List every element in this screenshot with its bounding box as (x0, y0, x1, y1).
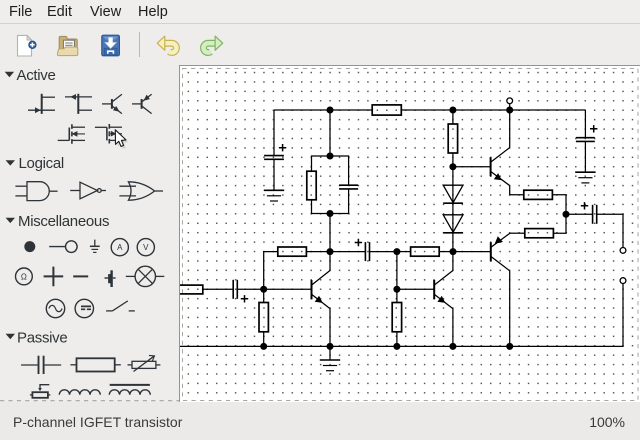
capacitor C2 (576, 138, 595, 142)
canvas backing (179, 65, 640, 402)
capacitor C4 (365, 242, 369, 261)
wire Q4 collector (509, 271, 511, 347)
wire J2 to R2 (452, 110, 454, 124)
palette icon: inductor with core (109, 385, 150, 395)
wire Q3 emitter to R8 (510, 186, 524, 195)
wire T2 to rail corner (180, 283, 623, 346)
node J15 (450, 344, 456, 350)
terminal T2 (620, 278, 626, 284)
statusbar (0, 402, 640, 440)
palette icon: minus (73, 275, 88, 277)
wire V+ drop to C1 (273, 110, 275, 156)
wire Q3 collector (509, 110, 511, 148)
resistor R4 (278, 247, 307, 256)
svg-text:Passive: Passive (17, 329, 67, 346)
wire Q1 emitter (329, 309, 331, 347)
ground G3 (320, 360, 340, 371)
wire Q2 emitter (452, 309, 454, 347)
menubar (0, 0, 640, 24)
transistor Q4 (491, 233, 510, 271)
palette icon: n-channel MOSFET (58, 124, 85, 144)
wire J1 to tank top (329, 110, 331, 156)
wire J7 to R4 (306, 251, 330, 253)
svg-text:V: V (143, 243, 149, 252)
SIDEBAR (0, 62, 179, 402)
wire Q2 collector (452, 252, 454, 271)
terminal T1 (620, 248, 626, 254)
C5 plus label (241, 295, 248, 302)
node J3 (450, 164, 456, 170)
grid dots field (184, 70, 637, 400)
diode D1 (443, 185, 463, 203)
section header Passive (6, 329, 68, 346)
toolbar (0, 24, 240, 62)
palette icon: voltmeter (137, 239, 154, 256)
wire J13 to R7 (396, 289, 398, 302)
node J17 (507, 344, 513, 350)
wire J9 to J13 (396, 252, 398, 290)
node J9 (394, 249, 400, 255)
palette icon: variable resistor (128, 355, 161, 371)
wire tank left top (312, 156, 331, 171)
wire J3 to Q3 base (453, 166, 490, 168)
sidebar bottom dashed edge (0, 400, 179, 402)
mouse cursor with shadow (115, 130, 128, 149)
wire R5 to rail (263, 332, 265, 347)
wire R8 to J16 (552, 195, 566, 215)
ground G1 (264, 190, 284, 201)
wire J16 down to R9 (553, 214, 566, 233)
wire J13 to Q2 base (397, 288, 434, 290)
resistor R6 (411, 247, 440, 256)
resistor R7 (392, 303, 401, 332)
page dashed border (183, 69, 639, 401)
node J16 (563, 211, 569, 217)
wire rail to G3 (329, 346, 331, 360)
transistor Q2 (434, 271, 453, 309)
wire R0 to C5 (203, 288, 233, 290)
wire tank right top (330, 156, 349, 185)
wire J7 to C4 (330, 251, 365, 253)
wire R6 to J12 (439, 251, 453, 253)
palette icon: battery cell (105, 270, 116, 287)
palette icon: ammeter (111, 239, 128, 256)
capacitor C5 (233, 280, 237, 299)
diode D2 (443, 215, 463, 233)
palette icon: node dot (24, 241, 35, 252)
palette icon: ohmmeter (16, 268, 33, 285)
svg-text:Active: Active (17, 67, 56, 84)
palette icon: terminal (49, 241, 77, 253)
section header Logical (6, 155, 64, 172)
wire R9 to Q4 emitter (510, 232, 525, 234)
palette icon: NOT gate (70, 182, 106, 199)
palette icon: DC source (75, 299, 93, 317)
palette icon: plus (44, 267, 64, 287)
wire tank left bottom (312, 200, 331, 214)
resistor R1 (372, 105, 401, 115)
resistor R3 (307, 171, 316, 200)
wire tank right bottom (330, 189, 349, 214)
palette icon: small ground (90, 240, 100, 253)
node J8 (261, 286, 267, 292)
palette icon: p-channel JFET (65, 94, 92, 114)
resistor R2 (448, 124, 457, 153)
svg-text:Miscellaneous: Miscellaneous (18, 213, 109, 230)
node J12 (450, 249, 456, 255)
toolbar icon: new document (18, 35, 37, 56)
node J13 (394, 286, 400, 292)
node J11 (261, 344, 267, 350)
palette icon: inductor (59, 390, 100, 395)
palette icon: PNP transistor (132, 94, 152, 113)
wire top rail left (274, 109, 372, 111)
palette icon: potentiometer (30, 385, 51, 398)
node J2 (450, 107, 456, 113)
C6 plus label (581, 202, 588, 209)
toolbar icon: open folder (57, 36, 77, 55)
wire R4 to J8 feedback (264, 252, 278, 290)
wire R2 to diodes (452, 153, 454, 252)
node J7 (327, 249, 333, 255)
capacitor C6 (593, 205, 597, 224)
wire top rail right (401, 109, 585, 111)
wire C2 to ground (584, 141, 586, 172)
palette icon: OR gate (119, 182, 163, 200)
svg-text:Logical: Logical (19, 155, 64, 172)
wire C6 to output (597, 214, 623, 248)
toolbar icon: save (102, 35, 120, 56)
resistor R8 (524, 190, 553, 199)
C2 plus label (590, 125, 597, 132)
resistor R9 (525, 229, 554, 238)
transistor Q3 (491, 148, 510, 186)
wire Q1 collector (329, 252, 331, 271)
palette icon: n-channel JFET (28, 94, 55, 114)
wire J16 to C6 (566, 213, 593, 215)
C4 plus label (355, 239, 362, 246)
ground G2 (575, 172, 595, 183)
palette icon: resistor (70, 358, 120, 371)
node J14 (394, 344, 400, 350)
node J4 (507, 107, 513, 113)
section header Miscellaneous (6, 213, 110, 230)
palette icon: AC source (46, 299, 64, 317)
wire C5 to Q1 base (237, 288, 310, 290)
palette icon: switch (106, 301, 135, 311)
wire J6 to J7 (329, 214, 331, 252)
toolbar icon: redo arrow (203, 36, 222, 52)
wire J8 to R5 (263, 289, 265, 302)
resistor R5 (259, 303, 268, 332)
wire C1 to ground (273, 159, 275, 190)
node J5 tank top (327, 153, 333, 159)
toolbar icon: undo arrow (157, 36, 176, 52)
capacitor C3 (339, 185, 358, 189)
C1 plus label (279, 144, 286, 151)
toolbar separator (139, 32, 141, 57)
resistor R0 input (176, 285, 203, 294)
wire C4 to J9 (370, 251, 397, 253)
palette icon: AND gate (15, 182, 57, 201)
svg-text:A: A (117, 243, 123, 252)
node J1 (327, 107, 333, 113)
palette icon: capacitor (21, 356, 61, 374)
wire R7 to rail (396, 332, 398, 347)
palette icon: lamp (126, 266, 165, 286)
node J6 tank bottom (327, 211, 333, 217)
wire Q4 base (453, 251, 490, 253)
svg-text:Ω: Ω (21, 272, 27, 281)
palette icon: p-channel MOSFET (95, 124, 123, 144)
terminal T0 (507, 98, 513, 110)
wire V+ corner to C2 (584, 110, 586, 138)
transistor Q1 (312, 271, 331, 309)
section header Active (5, 67, 56, 84)
palette icon: NPN transistor (102, 94, 122, 113)
wire J9 to R6 (397, 251, 411, 253)
capacitor C1 (264, 156, 284, 160)
node J10 (327, 344, 333, 350)
